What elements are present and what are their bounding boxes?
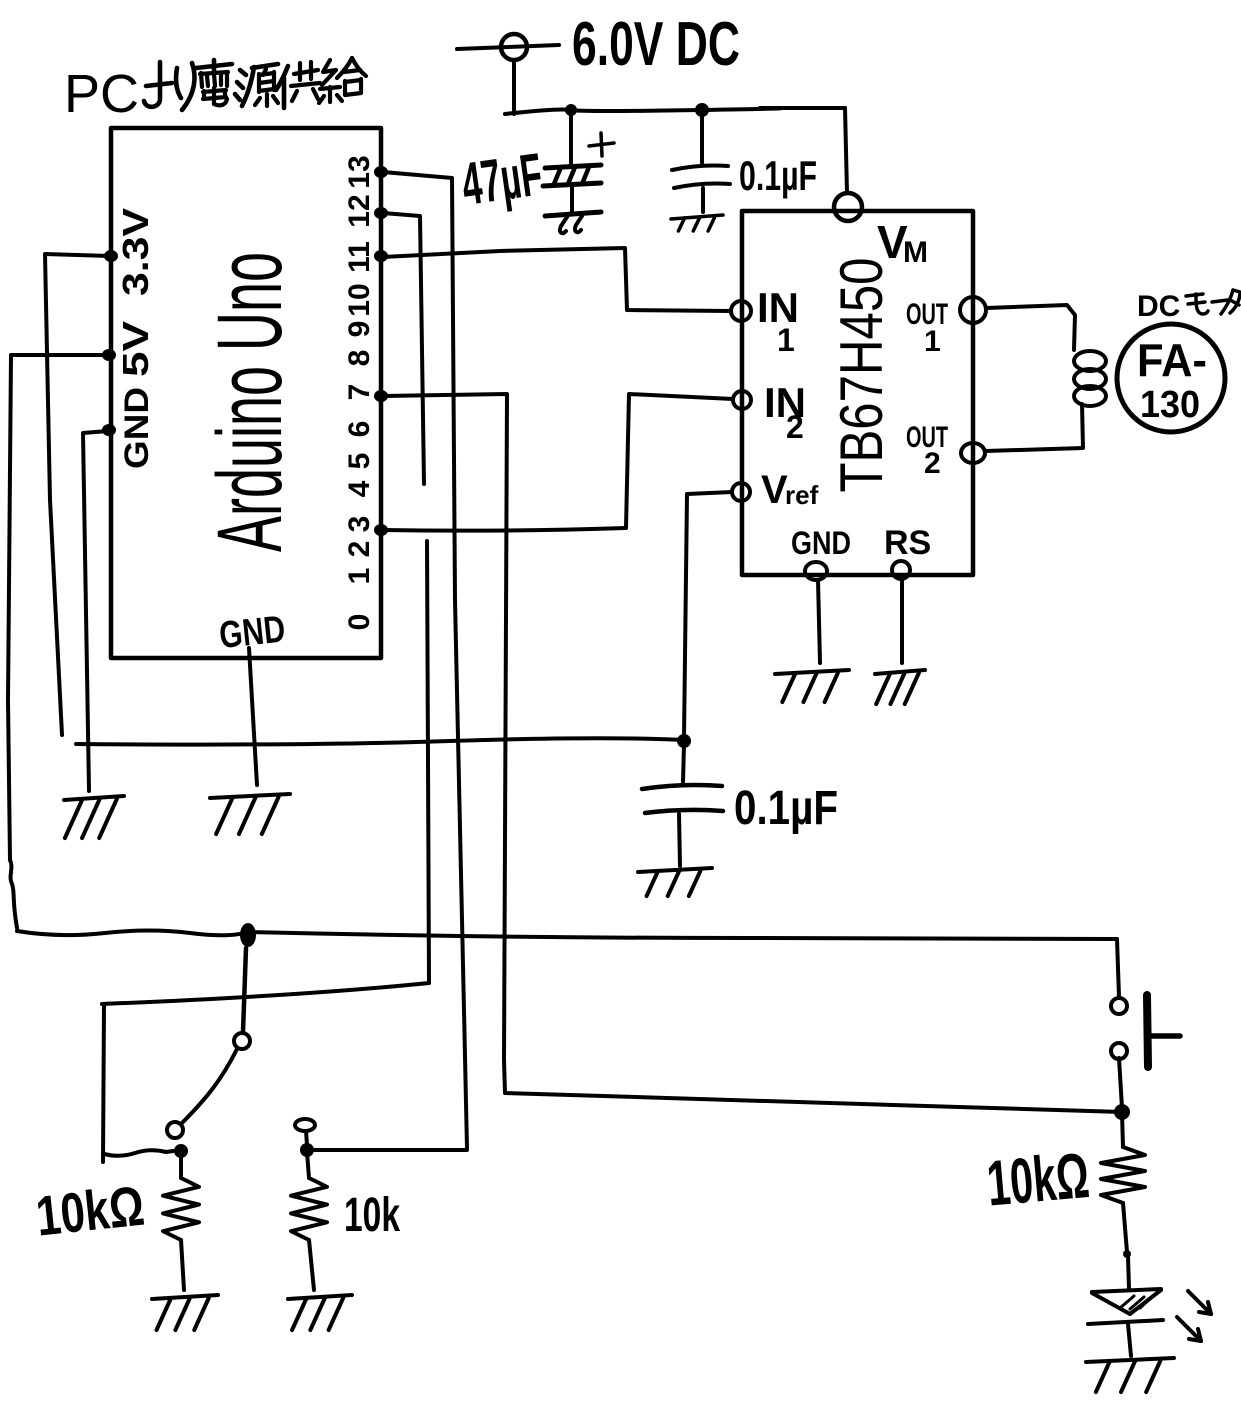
svg-text:4: 4	[343, 480, 376, 497]
svg-text:GND: GND	[217, 608, 287, 657]
svg-text:10kΩ: 10kΩ	[984, 1139, 1092, 1220]
svg-text:M: M	[903, 236, 928, 269]
svg-text:2: 2	[924, 447, 941, 480]
svg-text:9: 9	[343, 321, 376, 338]
svg-text:RS: RS	[884, 524, 931, 562]
svg-text:13: 13	[343, 155, 376, 188]
svg-text:5: 5	[343, 453, 376, 470]
svg-text:FA-: FA-	[1137, 334, 1207, 386]
svg-text:PC: PC	[64, 64, 139, 124]
svg-text:1: 1	[777, 322, 795, 358]
svg-text:6: 6	[343, 421, 376, 438]
svg-text:2: 2	[343, 541, 376, 558]
svg-text:V: V	[761, 468, 788, 512]
svg-text:2: 2	[786, 409, 804, 445]
svg-text:DC: DC	[1137, 290, 1180, 323]
svg-text:3.3V: 3.3V	[115, 208, 156, 296]
svg-text:3: 3	[343, 516, 376, 533]
svg-text:130: 130	[1140, 384, 1200, 426]
svg-text:ref: ref	[785, 480, 819, 510]
svg-text:12: 12	[343, 194, 376, 227]
svg-text:0.1µF: 0.1µF	[739, 152, 817, 199]
svg-text:GND: GND	[791, 525, 851, 561]
svg-text:0.1µF: 0.1µF	[734, 782, 838, 835]
svg-text:1: 1	[924, 325, 941, 358]
svg-text:GND: GND	[118, 387, 156, 469]
svg-text:11: 11	[343, 241, 376, 273]
svg-text:TB67H450: TB67H450	[828, 258, 895, 493]
svg-text:47µF: 47µF	[458, 140, 547, 217]
svg-text:10k: 10k	[344, 1189, 400, 1242]
svg-text:6.0V DC: 6.0V DC	[572, 10, 740, 79]
svg-text:0: 0	[343, 614, 376, 631]
svg-text:10: 10	[343, 283, 376, 316]
svg-text:5V: 5V	[115, 321, 156, 377]
svg-text:1: 1	[343, 568, 376, 585]
svg-text:Arduino Uno: Arduino Uno	[199, 252, 301, 552]
svg-text:10kΩ: 10kΩ	[33, 1174, 147, 1248]
svg-text:7: 7	[343, 384, 376, 401]
svg-text:8: 8	[343, 350, 376, 367]
